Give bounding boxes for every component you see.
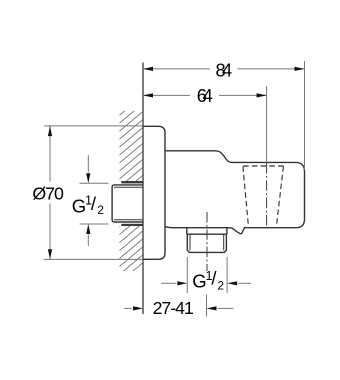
svg-text:2: 2 xyxy=(217,279,224,293)
body outline xyxy=(165,151,305,234)
inlet collar tab top xyxy=(121,181,143,183)
wall hatching upper patch xyxy=(120,111,144,182)
flange (escutcheon) outline xyxy=(143,126,165,259)
label G1/2 left xyxy=(72,193,104,217)
dim 64 xyxy=(143,94,267,96)
inlet thread inner lines xyxy=(114,186,143,188)
wall face line xyxy=(142,63,144,315)
svg-text:64: 64 xyxy=(197,85,213,106)
svg-text:2: 2 xyxy=(97,203,104,217)
label G1/2 bottom xyxy=(192,268,224,293)
inlet collar tab bottom xyxy=(121,224,143,226)
holder cone hidden line left (dashed) xyxy=(243,166,249,226)
dim G1/2 bottom xyxy=(186,257,188,293)
holder cone hidden line right (dashed) xyxy=(277,166,284,225)
svg-text:/: / xyxy=(91,193,97,214)
dim 84 xyxy=(143,68,305,70)
outlet centerline xyxy=(206,212,208,271)
outlet thread inner lines xyxy=(189,234,191,250)
dim diameter 70 xyxy=(44,125,143,127)
holder centerline (64 extension) xyxy=(266,86,268,164)
outlet stub threaded part xyxy=(187,234,226,252)
dim 27-41 xyxy=(206,295,208,317)
dim G1/2 left xyxy=(80,182,109,184)
inlet pipe (through wall) xyxy=(112,185,143,222)
wall hatching lower patch xyxy=(120,226,144,271)
svg-text:84: 84 xyxy=(216,60,233,81)
outlet stub collar xyxy=(187,228,227,235)
right extension line (84) xyxy=(304,61,306,170)
svg-text:27-41: 27-41 xyxy=(153,298,194,318)
holder cone hidden line top (dashed) xyxy=(243,165,283,167)
svg-text:Ø70: Ø70 xyxy=(32,184,64,204)
